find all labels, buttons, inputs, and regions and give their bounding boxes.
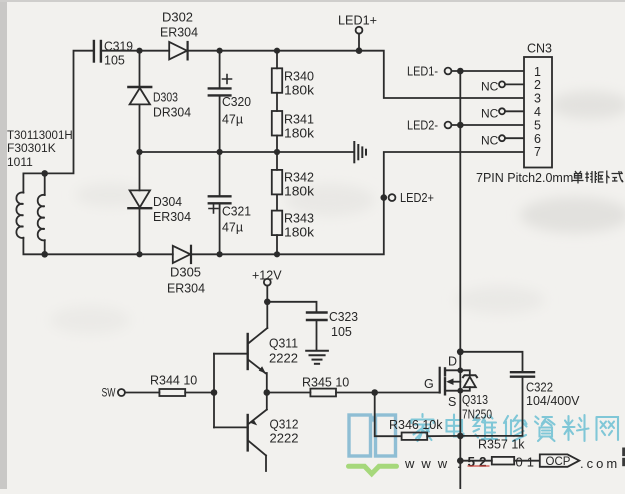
- svg-text:LED2+: LED2+: [400, 191, 434, 205]
- node D304 bottom: [136, 251, 142, 257]
- svg-text:R342: R342: [284, 171, 314, 185]
- svg-text:C320: C320: [222, 95, 251, 109]
- node C320 top: [217, 48, 223, 54]
- body diode of Q313: [460, 370, 477, 390]
- capacitor C323: [267, 302, 358, 351]
- svg-text:5: 5: [534, 118, 541, 132]
- svg-text:G: G: [424, 377, 434, 391]
- wire C319 to D302: [102, 50, 169, 52]
- node output: [264, 389, 271, 396]
- node mid C320/C321: [217, 149, 223, 155]
- terminal LED2+: [381, 191, 435, 205]
- svg-text:NC: NC: [481, 134, 499, 148]
- svg-text:7: 7: [534, 145, 541, 159]
- wire D302 to corner, down to CN3 pin3: [188, 51, 524, 98]
- wire long vertical LED return to drain: [459, 71, 461, 352]
- svg-text:CN3: CN3: [527, 42, 552, 56]
- node source/C322: [457, 433, 464, 440]
- transistor Q311: [214, 328, 298, 374]
- node mid R341/R342: [274, 149, 280, 155]
- watermark book icon: [349, 415, 397, 474]
- wire Q311 emitter to output node: [266, 373, 268, 393]
- svg-text:7N250: 7N250: [462, 408, 492, 422]
- svg-text:Q311: Q311: [269, 337, 298, 351]
- char 修: [504, 416, 527, 442]
- capacitor C320: [209, 51, 251, 152]
- ground mid rail (right-facing): [354, 142, 366, 162]
- node pin1 junction: [457, 68, 464, 75]
- node C321 bottom: [217, 251, 223, 257]
- svg-text:104/400V: 104/400V: [526, 394, 580, 408]
- svg-text:F30301K: F30301K: [7, 141, 56, 155]
- svg-text:Q313: Q313: [462, 393, 488, 407]
- terminal NC pin2: [481, 80, 524, 94]
- terminal +12V: [252, 269, 282, 306]
- wire mid rail: [140, 151, 355, 153]
- svg-text:DR304: DR304: [153, 106, 191, 120]
- svg-text:OCP: OCP: [546, 456, 571, 468]
- terminal NC pin6: [481, 134, 524, 148]
- char 维: [474, 415, 498, 440]
- transformer T30113001H: [7, 130, 73, 258]
- terminal LED1+: [338, 14, 377, 51]
- svg-text:LED1+: LED1+: [338, 14, 377, 28]
- svg-text:R357 1k: R357 1k: [478, 438, 525, 452]
- char 料: [563, 415, 589, 441]
- svg-text:01: 01: [516, 455, 538, 470]
- node base tie: [211, 389, 218, 396]
- svg-text:180k: 180k: [284, 127, 315, 141]
- char 资: [535, 417, 555, 442]
- svg-text:LED1-: LED1-: [407, 65, 438, 79]
- node gate/R346 junction: [371, 389, 378, 396]
- svg-text:R341: R341: [284, 113, 314, 127]
- label 单排卧式 (drawn glyphs): [573, 171, 624, 184]
- char 电: [447, 415, 464, 437]
- node pin5 junction: [457, 122, 464, 129]
- wire top rail left segment: [45, 51, 93, 174]
- svg-text:180k: 180k: [284, 84, 315, 98]
- svg-text:D305: D305: [170, 266, 201, 280]
- node R343 bottom: [274, 251, 280, 257]
- transistor Q312: [214, 410, 299, 472]
- svg-text:C323: C323: [329, 310, 358, 324]
- svg-text:105: 105: [331, 325, 352, 339]
- wire base tie vertical: [213, 354, 215, 428]
- svg-text:7PIN Pitch2.0mm: 7PIN Pitch2.0mm: [476, 171, 573, 185]
- resistor R340: [272, 51, 315, 98]
- svg-text:ER304: ER304: [153, 210, 191, 224]
- mosfet Q313: [424, 355, 492, 422]
- svg-text:D: D: [448, 355, 457, 369]
- diode D304: [128, 152, 191, 254]
- svg-text:4: 4: [534, 105, 541, 119]
- svg-text:47µ: 47µ: [222, 113, 243, 127]
- resistor R342: [272, 152, 315, 199]
- svg-text:C322: C322: [526, 381, 553, 395]
- terminal SW: [102, 386, 160, 400]
- node LED1+ junction: [356, 47, 363, 54]
- node R340 top: [274, 48, 280, 54]
- svg-text:R340: R340: [284, 70, 314, 84]
- flag OCP: [540, 454, 580, 467]
- svg-text:D303: D303: [153, 91, 178, 105]
- svg-text:D302: D302: [162, 11, 193, 25]
- resistor R346: [389, 418, 460, 440]
- svg-text:105: 105: [104, 54, 125, 68]
- capacitor C319: [94, 40, 133, 68]
- resistor R343: [272, 194, 315, 254]
- terminal NC pin4: [481, 107, 524, 121]
- resistor R357: [460, 438, 540, 465]
- wire Q312 emitter vertical: [266, 393, 268, 410]
- resistor R344: [150, 374, 214, 397]
- node top of D303: [136, 48, 142, 54]
- svg-text:R344 10: R344 10: [150, 374, 197, 388]
- char 网: [597, 417, 619, 440]
- svg-text:2222: 2222: [269, 352, 298, 366]
- svg-text:R345 10: R345 10: [302, 376, 349, 390]
- diode D302: [160, 11, 198, 60]
- wire output node to gate: [267, 392, 311, 394]
- svg-text:R343: R343: [284, 212, 314, 226]
- node source/R357: [457, 457, 464, 464]
- svg-text:NC: NC: [481, 80, 499, 94]
- terminal LED1-: [407, 65, 524, 79]
- svg-text:2: 2: [534, 78, 541, 92]
- svg-text:R346 10k: R346 10k: [389, 418, 443, 432]
- node mid D303/D304: [136, 149, 142, 155]
- svg-text:www: www: [404, 456, 454, 471]
- node drain: [457, 348, 464, 355]
- svg-text:6: 6: [534, 132, 541, 146]
- resistor R345: [302, 376, 440, 397]
- terminal LED2-: [407, 119, 524, 133]
- svg-text:2222: 2222: [270, 432, 299, 446]
- watermark 家电维修资料网 (drawn glyphs): [412, 414, 619, 441]
- svg-text:.com: .com: [580, 456, 620, 471]
- svg-text:180k: 180k: [284, 185, 315, 199]
- connector CN3: [524, 42, 552, 168]
- resistor R341: [272, 93, 315, 152]
- svg-text:ER304: ER304: [167, 282, 205, 296]
- wire gate node down to R346: [375, 393, 402, 437]
- svg-text:52: 52: [468, 455, 491, 470]
- svg-text:LED2-: LED2-: [407, 119, 438, 133]
- wire bottom rail: [45, 253, 173, 255]
- wire bottom rail right, up to pin7 line: [191, 152, 524, 254]
- svg-text:180k: 180k: [284, 226, 315, 240]
- wire drain vertical: [459, 352, 461, 371]
- capacitor C321: [209, 152, 251, 254]
- svg-text:Q312: Q312: [270, 418, 299, 432]
- svg-text:47µ: 47µ: [222, 221, 243, 235]
- svg-text:D304: D304: [153, 195, 182, 209]
- ground below C323: [306, 351, 328, 364]
- capacitor C322: [460, 352, 580, 436]
- svg-text:1: 1: [534, 65, 541, 79]
- svg-text:C321: C321: [222, 205, 251, 219]
- char 家: [412, 414, 434, 441]
- wire source vertical to bottom: [459, 391, 461, 489]
- svg-text:SW: SW: [102, 386, 116, 400]
- watermark url www.520101.com: [404, 455, 620, 472]
- right edge cropped mark: [622, 448, 625, 467]
- diode D305: [167, 246, 205, 296]
- svg-text:NC: NC: [481, 107, 499, 121]
- svg-text:S: S: [448, 395, 456, 409]
- wire +12V down to Q311 collector: [266, 302, 268, 328]
- svg-text:3: 3: [534, 92, 541, 106]
- diode D303: [128, 51, 191, 152]
- svg-text:ER304: ER304: [160, 26, 198, 40]
- svg-text:1011: 1011: [7, 155, 33, 169]
